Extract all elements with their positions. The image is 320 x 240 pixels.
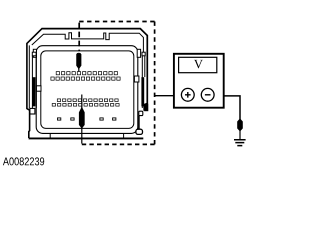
top probe arrow (77, 53, 82, 69)
ground stem (239, 130, 241, 139)
dashed test box left edge partial (78, 23, 80, 51)
connector outer shell top and right outline (42, 29, 148, 111)
left latch channel lines (32, 56, 36, 109)
caption A0082239 (3, 157, 44, 165)
upper pin row 1 (56, 72, 117, 75)
face left mid bump (36, 86, 41, 91)
right latch channel top tab (142, 52, 145, 56)
voltmeter minus terminal (201, 88, 214, 101)
ground symbol (234, 140, 246, 146)
plus sign (185, 92, 191, 98)
left channel bottom box (30, 108, 35, 114)
base band line ticks (50, 134, 123, 138)
right latch black foot (144, 104, 148, 111)
voltmeter V label (194, 60, 203, 69)
minus sign (205, 94, 211, 96)
bottom right ear clip (136, 129, 143, 134)
right latch channel lines (142, 56, 145, 108)
right side vertical below ear (138, 116, 140, 130)
top probe arrow lower stem (78, 69, 80, 72)
wire from dashed box to voltmeter plus (155, 95, 181, 97)
face right top ear (137, 49, 140, 57)
upper pin row 2 (51, 77, 120, 80)
scattered bottom pins (58, 118, 116, 120)
dashed test box right edge (154, 22, 156, 145)
connector face outer rounded rect (36, 46, 138, 134)
bottom probe arrow stem (81, 95, 83, 144)
connector second outline with top tabs (32, 33, 144, 56)
connector outer shell left outline (27, 29, 42, 138)
bottom probe arrow (79, 107, 84, 128)
voltmeter plus terminal (181, 88, 194, 101)
right side ear box upper (139, 111, 143, 115)
right latch black bar (141, 77, 144, 106)
ground probe stake (238, 119, 243, 131)
voltmeter outer box (174, 54, 224, 108)
connector base bottom edge (29, 137, 144, 139)
wire from voltmeter minus to ground drop (214, 96, 240, 120)
face left top ear (33, 49, 36, 57)
lower pin row 2 (52, 104, 119, 107)
connector face inner rounded rect (41, 51, 134, 128)
left latch black bar (33, 77, 36, 106)
lower pin row 1 (57, 99, 118, 102)
dashed test box bottom edge (82, 143, 155, 145)
dashed test box top edge (79, 21, 154, 23)
connector second outline left vertical (28, 45, 30, 108)
voltmeter display box (179, 57, 217, 72)
face right mid bump (134, 76, 139, 82)
left latch channel top tab (32, 52, 36, 56)
